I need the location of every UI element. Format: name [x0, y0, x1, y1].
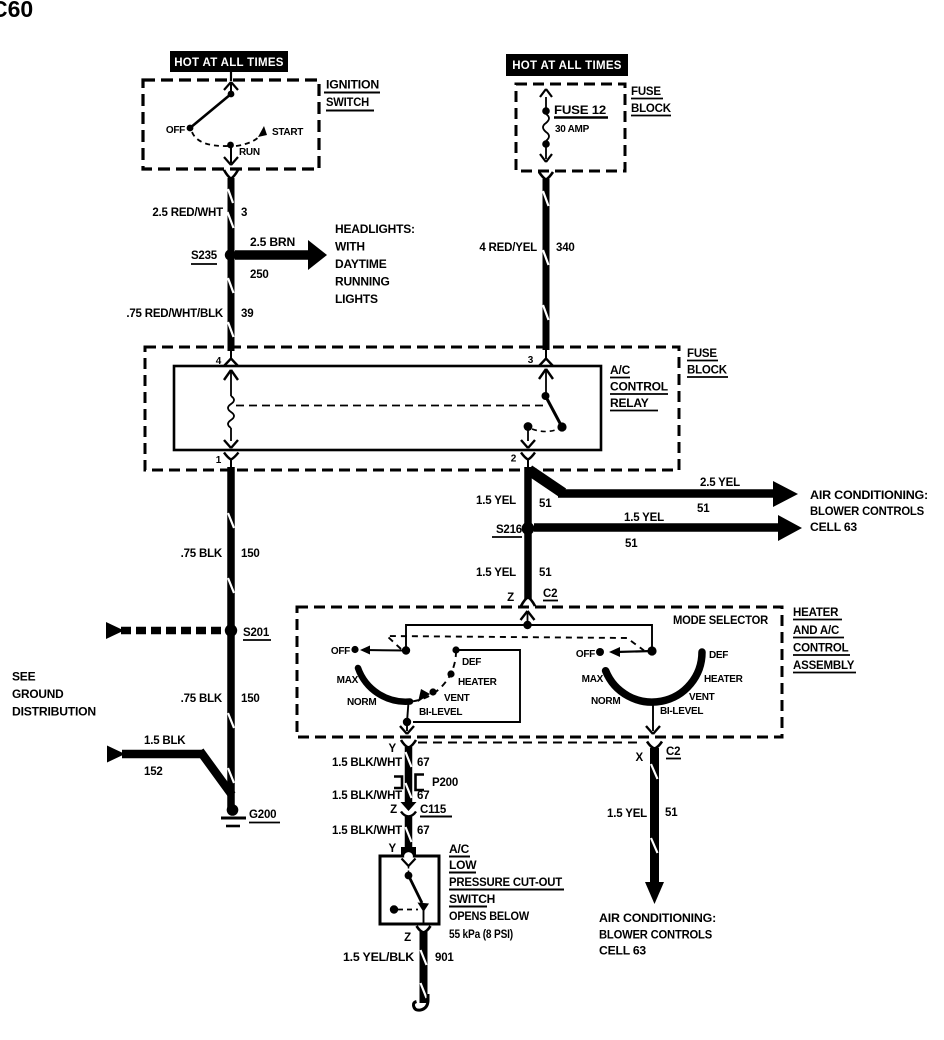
- A/C low pressure cut-out switch box: [380, 856, 439, 924]
- ground G200: [221, 804, 280, 826]
- svg-text:WITH: WITH: [335, 240, 365, 254]
- left output arrow down: [400, 722, 414, 734]
- power feed label HOT AT ALL TIMES (right): [506, 54, 628, 76]
- svg-text:901: 901: [435, 952, 454, 964]
- relay pin 3: [528, 347, 553, 393]
- wire stub from HOT label to ignition switch: [230, 72, 232, 81]
- ignition switch feed arrow up: [224, 82, 238, 95]
- svg-text:BLOWER CONTROLS: BLOWER CONTROLS: [599, 928, 712, 942]
- label IGNITION SWITCH: [324, 78, 380, 111]
- svg-text:GROUND: GROUND: [12, 687, 64, 701]
- svg-text:FUSE: FUSE: [687, 348, 717, 360]
- off-page wire 1.5 BLK ckt 152: [107, 746, 232, 796]
- wire 1.5 YEL ckt 51 (X down): [650, 748, 659, 884]
- svg-text:CELL 63: CELL 63: [599, 944, 647, 958]
- svg-text:AIR CONDITIONING:: AIR CONDITIONING:: [810, 488, 928, 502]
- svg-text:RELAY: RELAY: [610, 396, 649, 410]
- ignition switch SW1 dashed box: [143, 80, 319, 169]
- svg-text:OPENS BELOW: OPENS BELOW: [449, 909, 530, 923]
- svg-text:1.5 YEL/BLK: 1.5 YEL/BLK: [343, 952, 415, 964]
- svg-text:S201: S201: [243, 627, 270, 639]
- svg-text:51: 51: [697, 503, 710, 515]
- svg-text:C115: C115: [420, 804, 447, 816]
- fuse block dashed box (top): [516, 84, 625, 171]
- destination note AIR CONDITIONING (upper): [810, 488, 928, 534]
- svg-text:BLOCK: BLOCK: [631, 103, 672, 115]
- wire .75 RED/WHT/BLK ckt 39: [228, 259, 235, 351]
- splice S235: [225, 249, 236, 260]
- svg-text:55 kPa (8 PSI): 55 kPa (8 PSI): [449, 927, 513, 941]
- fuse 12 element: [540, 89, 552, 162]
- svg-text:MODE SELECTOR: MODE SELECTOR: [673, 615, 769, 627]
- svg-text:NORM: NORM: [347, 697, 376, 708]
- svg-text:FUSE: FUSE: [631, 86, 661, 98]
- svg-text:START: START: [272, 127, 303, 138]
- svg-text:Y: Y: [389, 743, 397, 755]
- svg-text:DEF: DEF: [709, 650, 728, 661]
- svg-text:67: 67: [417, 757, 429, 769]
- relay coil: [228, 396, 234, 428]
- switch inlet cup: [401, 847, 416, 857]
- left switch position labels: [337, 657, 498, 718]
- svg-text:51: 51: [665, 807, 678, 819]
- left mode switch pivot: [402, 646, 410, 654]
- svg-text:.75 BLK: .75 BLK: [181, 693, 223, 705]
- connector flare at ignition output: [224, 170, 238, 179]
- svg-text:2.5 BRN: 2.5 BRN: [250, 237, 295, 249]
- svg-text:A/C: A/C: [449, 842, 470, 856]
- ignition switch pivot contact: [228, 91, 235, 98]
- label FUSE BLOCK (top): [631, 86, 672, 116]
- wire 1.5 BLK/WHT ckt 67 (C115 to switch): [405, 816, 413, 851]
- A/C control relay K1 box: [174, 366, 601, 450]
- svg-text:VENT: VENT: [444, 693, 470, 704]
- svg-text:.75 BLK: .75 BLK: [181, 548, 223, 560]
- svg-text:DEF: DEF: [462, 657, 481, 668]
- svg-text:1: 1: [216, 455, 222, 466]
- svg-text:2.5 YEL: 2.5 YEL: [700, 477, 740, 489]
- svg-text:BLOWER CONTROLS: BLOWER CONTROLS: [810, 504, 924, 518]
- note SEE GROUND DISTRIBUTION: [12, 670, 96, 719]
- svg-text:30 AMP: 30 AMP: [555, 124, 590, 135]
- fuse block dashed box (relay housing): [145, 347, 679, 470]
- connector flare below fuse block: [539, 172, 553, 180]
- wire 4 RED/YEL ckt 340: [543, 179, 550, 350]
- svg-text:1.5 BLK/WHT: 1.5 BLK/WHT: [332, 790, 402, 802]
- svg-text:SWITCH: SWITCH: [449, 892, 495, 906]
- label HEATER AND A/C CONTROL ASSEMBLY: [793, 607, 856, 673]
- svg-text:4: 4: [216, 356, 222, 367]
- svg-text:OFF: OFF: [166, 125, 185, 136]
- svg-text:RUN: RUN: [239, 147, 260, 158]
- OFF contact: [187, 125, 194, 132]
- feed arrow into mode selector: [521, 611, 535, 625]
- ignition switch blade to OFF: [190, 94, 231, 128]
- wire 1.5 YEL/BLK ckt 901: [420, 932, 428, 1003]
- svg-text:BI-LEVEL: BI-LEVEL: [419, 707, 462, 718]
- svg-text:C2: C2: [543, 588, 557, 600]
- svg-text:DISTRIBUTION: DISTRIBUTION: [12, 705, 96, 719]
- svg-text:1.5 YEL: 1.5 YEL: [624, 512, 664, 524]
- svg-text:39: 39: [241, 308, 253, 320]
- svg-text:RUNNING: RUNNING: [335, 275, 390, 289]
- svg-text:Y: Y: [389, 843, 397, 855]
- svg-text:AND A/C: AND A/C: [793, 625, 839, 637]
- right OFF contact: [596, 648, 604, 656]
- svg-text:X: X: [636, 752, 644, 764]
- relay pin 2 lead with arrow: [521, 430, 535, 448]
- connector C115: [390, 802, 452, 817]
- heater and A/C control assembly dashed box: [297, 607, 782, 737]
- destination note AIR CONDITIONING (lower): [599, 911, 716, 958]
- svg-text:FUSE 12: FUSE 12: [554, 105, 606, 117]
- svg-text:SWITCH: SWITCH: [326, 95, 369, 109]
- svg-text:BLOCK: BLOCK: [687, 365, 728, 377]
- wire 1.5 YEL 51 arrow to blower controls (from S216): [534, 515, 802, 541]
- left switch contact arc: [358, 668, 410, 702]
- svg-text:MAX: MAX: [582, 674, 604, 685]
- svg-text:P200: P200: [432, 777, 458, 789]
- left switch output node: [403, 718, 411, 726]
- svg-text:HOT AT ALL TIMES: HOT AT ALL TIMES: [174, 57, 284, 69]
- relay pin 1 lead with arrow: [224, 428, 238, 448]
- mechanical link dashed: [387, 636, 644, 651]
- left mode switch wiper: [360, 646, 406, 655]
- svg-text:HOT AT ALL TIMES: HOT AT ALL TIMES: [512, 60, 622, 72]
- connector C2 pin Y flare: [401, 740, 416, 748]
- svg-text:OFF: OFF: [576, 649, 595, 660]
- label FUSE 12 / 30 AMP: [554, 105, 608, 135]
- RUN output arrow down: [224, 148, 238, 165]
- svg-text:51: 51: [539, 567, 552, 579]
- right switch position labels: [582, 650, 744, 717]
- svg-text:MAX: MAX: [337, 675, 359, 686]
- wire to right switch pivot: [528, 625, 653, 650]
- svg-text:A/C: A/C: [610, 363, 631, 377]
- svg-text:4 RED/YEL: 4 RED/YEL: [479, 242, 537, 254]
- svg-text:DAYTIME: DAYTIME: [335, 257, 387, 271]
- svg-text:1.5 YEL: 1.5 YEL: [476, 495, 516, 507]
- connector pin Z flare below switch: [417, 926, 431, 933]
- svg-text:3: 3: [528, 355, 534, 366]
- relay pin 1 connector: [216, 453, 239, 470]
- svg-text:1.5 YEL: 1.5 YEL: [607, 808, 647, 820]
- off-page arrow into S201: [106, 622, 225, 639]
- svg-text:Z: Z: [404, 932, 411, 944]
- svg-text:1.5 BLK/WHT: 1.5 BLK/WHT: [332, 825, 402, 837]
- svg-text:150: 150: [241, 693, 260, 705]
- wire 1.5 BLK/WHT ckt 67 (Y to P200/C115): [405, 747, 413, 803]
- svg-text:51: 51: [539, 498, 552, 510]
- left switch position contacts: [452, 646, 459, 653]
- connector C2 dashed link Y to X: [418, 742, 641, 744]
- svg-text:OFF: OFF: [331, 646, 350, 657]
- svg-text:LIGHTS: LIGHTS: [335, 292, 378, 306]
- continuation hook: [413, 994, 428, 1010]
- relay coil-contact dashed link: [236, 405, 546, 407]
- connector C2 pin X flare: [647, 742, 662, 749]
- svg-text:C2: C2: [666, 746, 680, 758]
- svg-text:HEADLIGHTS:: HEADLIGHTS:: [335, 222, 415, 236]
- svg-text:HEATER: HEATER: [704, 674, 744, 685]
- svg-text:S235: S235: [191, 250, 218, 262]
- label A/C CONTROL RELAY: [610, 363, 668, 411]
- svg-text:340: 340: [556, 242, 575, 254]
- svg-text:CONTROL: CONTROL: [610, 380, 668, 394]
- pressure switch contacts: [390, 859, 429, 924]
- svg-text:Z: Z: [507, 592, 514, 604]
- junction node: [523, 621, 531, 629]
- left switch dashed position arc: [413, 650, 456, 701]
- relay pin 4: [216, 347, 238, 396]
- svg-text:CONTROL: CONTROL: [793, 643, 849, 655]
- label A/C LOW PRESSURE CUT-OUT SWITCH: [449, 842, 564, 941]
- svg-text:.75 RED/WHT/BLK: .75 RED/WHT/BLK: [126, 308, 224, 320]
- svg-text:250: 250: [250, 269, 269, 281]
- svg-text:BI-LEVEL: BI-LEVEL: [660, 706, 703, 717]
- RUN contact: [227, 142, 234, 149]
- svg-text:1.5 BLK/WHT: 1.5 BLK/WHT: [332, 757, 402, 769]
- right switch contact arc: [606, 652, 702, 702]
- svg-text:67: 67: [417, 790, 429, 802]
- wire .75 BLK ckt 150 (pin1 to S201): [227, 467, 235, 808]
- svg-text:NORM: NORM: [591, 696, 620, 707]
- wire 2.5 BRN ckt 250 arrow to headlights: [235, 240, 327, 270]
- left DEF feedback wire box: [413, 650, 520, 722]
- svg-text:150: 150: [241, 548, 260, 560]
- svg-text:LOW: LOW: [449, 858, 477, 872]
- svg-text:67: 67: [417, 825, 429, 837]
- inline connector P200: [394, 775, 458, 791]
- svg-text:C60: C60: [0, 0, 33, 22]
- connector C2 pin Z flare: [521, 598, 535, 607]
- svg-text:2: 2: [511, 454, 517, 465]
- splice S201: [225, 624, 237, 636]
- right mode switch pivot: [647, 646, 656, 655]
- label FUSE BLOCK (relay housing): [687, 348, 728, 377]
- svg-text:SEE: SEE: [12, 670, 36, 684]
- svg-text:3: 3: [241, 207, 247, 219]
- svg-text:152: 152: [144, 766, 163, 778]
- svg-text:51: 51: [625, 538, 638, 550]
- svg-text:HEATER: HEATER: [793, 607, 839, 619]
- branch to blower controls arrow (2.5 YEL 51): [529, 470, 798, 507]
- wire 1.5 YEL ckt 51 (pin2 down): [524, 467, 532, 599]
- right mode switch wiper: [609, 647, 652, 657]
- left wiper direction arrow on arc: [418, 689, 430, 702]
- svg-text:S216: S216: [496, 524, 522, 536]
- svg-text:G200: G200: [249, 809, 276, 821]
- svg-text:VENT: VENT: [689, 692, 715, 703]
- wire 2.5 RED/WHT ckt 3: [228, 178, 235, 251]
- relay pin 2 connector: [511, 453, 535, 470]
- START contact arrow: [258, 126, 267, 137]
- dashed travel arc OFF-RUN-START: [192, 132, 262, 146]
- svg-text:2.5 RED/WHT: 2.5 RED/WHT: [152, 207, 223, 219]
- svg-text:PRESSURE CUT-OUT: PRESSURE CUT-OUT: [449, 875, 563, 889]
- wire to left switch pivot: [406, 625, 528, 650]
- left OFF contact: [351, 646, 358, 653]
- svg-text:HEATER: HEATER: [458, 677, 498, 688]
- svg-text:IGNITION: IGNITION: [326, 78, 379, 92]
- svg-text:Z: Z: [390, 804, 397, 816]
- svg-text:AIR CONDITIONING:: AIR CONDITIONING:: [599, 911, 716, 925]
- svg-text:1.5 YEL: 1.5 YEL: [476, 567, 516, 579]
- relay switch contacts: [524, 392, 567, 432]
- svg-text:ASSEMBLY: ASSEMBLY: [793, 660, 855, 672]
- power feed label HOT AT ALL TIMES (left): [170, 51, 288, 72]
- splice S216: [522, 522, 535, 535]
- svg-text:1.5 BLK: 1.5 BLK: [144, 735, 186, 747]
- svg-text:CELL 63: CELL 63: [810, 520, 858, 534]
- right output lead: [646, 702, 660, 734]
- destination note HEADLIGHTS: [335, 222, 415, 306]
